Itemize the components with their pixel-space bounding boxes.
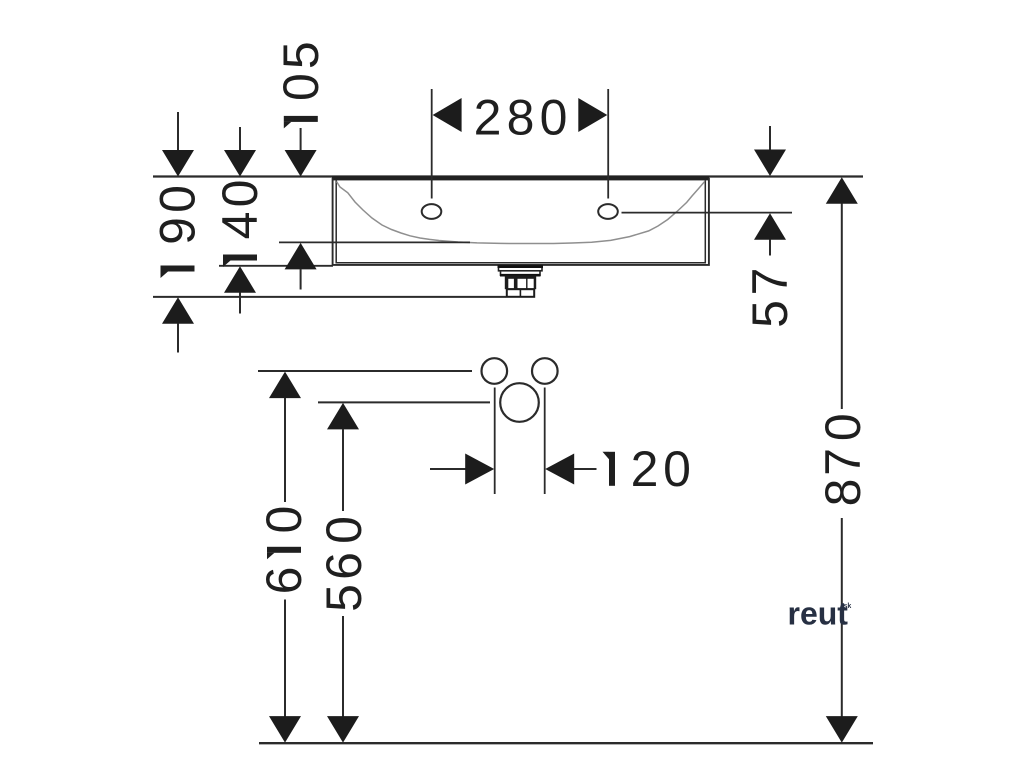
dim 120 left arrow xyxy=(465,454,494,485)
faucet hole small right xyxy=(532,358,558,384)
dim 57 bottom arrow xyxy=(754,213,786,240)
dim 190 bottom stem xyxy=(177,324,179,353)
svg-text:2: 2 xyxy=(631,441,659,497)
280 right extension line xyxy=(607,89,609,199)
dim 870 top arrow xyxy=(826,177,858,204)
dim 105 bottom arrow xyxy=(285,243,317,270)
dim 190 bottom arrow xyxy=(162,297,194,324)
dim 190 top arrow xyxy=(162,150,194,177)
dim 57 bottom stem xyxy=(769,240,771,256)
svg-text:9: 9 xyxy=(150,217,206,245)
57 reference line xyxy=(622,212,793,214)
svg-text:5: 5 xyxy=(742,300,798,328)
svg-text:0: 0 xyxy=(212,180,268,208)
svg-text:sk: sk xyxy=(844,603,852,610)
svg-text:6: 6 xyxy=(256,567,312,595)
dim 120 left stem xyxy=(430,468,466,470)
label 190 xyxy=(161,266,195,272)
dim 280 left arrow xyxy=(433,98,462,132)
washbasin inner body xyxy=(336,180,705,262)
drain collar xyxy=(501,271,541,275)
svg-text:7: 7 xyxy=(815,448,871,476)
svg-text:reut: reut xyxy=(788,596,849,632)
left overflow hole xyxy=(422,204,442,219)
svg-text:2: 2 xyxy=(474,90,502,146)
washbasin top edge xyxy=(332,176,709,181)
svg-text:0: 0 xyxy=(815,413,871,441)
drain knurled nut xyxy=(505,275,536,289)
svg-text:4: 4 xyxy=(212,212,268,240)
dim 140 bottom stem xyxy=(239,293,241,314)
dim 610 top arrow xyxy=(269,372,301,399)
dim 120 right stem xyxy=(574,468,597,470)
dim 140 bottom arrow xyxy=(224,266,256,293)
label 120 xyxy=(609,452,615,486)
faucet hole small left xyxy=(482,358,508,384)
dim 560 upper stem xyxy=(342,429,344,511)
dim 57 top stem xyxy=(769,126,771,151)
drain tailpiece xyxy=(507,289,534,297)
svg-text:0: 0 xyxy=(273,73,329,101)
280 left extension line xyxy=(431,89,433,199)
dim 57 top arrow xyxy=(754,150,786,177)
dim 105 top stem xyxy=(300,128,302,151)
dim 140 top arrow xyxy=(224,150,256,177)
105 reference line xyxy=(279,241,470,243)
svg-text:7: 7 xyxy=(742,268,798,296)
dim 870 bottom arrow xyxy=(826,716,858,743)
svg-text:0: 0 xyxy=(663,441,691,497)
washbasin outer body xyxy=(333,178,709,265)
dim 870 lower stem xyxy=(841,518,843,717)
dim 560 top arrow xyxy=(327,403,359,430)
dim 120 right arrow xyxy=(545,454,574,485)
610 reference line xyxy=(258,370,472,372)
560 reference line xyxy=(318,401,490,403)
dim 610 bottom arrow xyxy=(269,716,301,743)
svg-text:0: 0 xyxy=(540,90,568,146)
dim 280 right arrow xyxy=(578,98,607,132)
svg-text:5: 5 xyxy=(273,41,329,69)
svg-text:0: 0 xyxy=(256,506,312,534)
svg-text:8: 8 xyxy=(507,90,535,146)
label 140 xyxy=(223,255,257,261)
svg-text:8: 8 xyxy=(815,479,871,507)
dim 560 bottom arrow xyxy=(327,716,359,743)
svg-text:6: 6 xyxy=(316,552,372,580)
svg-text:5: 5 xyxy=(316,584,372,612)
dim 870 upper stem xyxy=(841,204,843,410)
wall line xyxy=(153,175,863,177)
dim 190 top stem xyxy=(177,112,179,151)
dim 140 top stem xyxy=(239,127,241,151)
svg-text:0: 0 xyxy=(150,185,206,213)
faucet hole large xyxy=(500,383,539,422)
120 left extension line xyxy=(494,388,496,495)
svg-text:0: 0 xyxy=(316,516,372,544)
basin interior curve xyxy=(337,181,705,243)
dim 610 lower stem xyxy=(284,600,286,718)
dim 105 bottom stem xyxy=(300,269,302,289)
dim 105 top arrow xyxy=(285,150,317,177)
190 reference line xyxy=(153,296,506,298)
label 105 xyxy=(284,116,318,122)
dim 560 lower stem xyxy=(342,616,344,717)
right overflow hole xyxy=(598,204,618,219)
drain flange xyxy=(499,266,543,271)
floor line xyxy=(259,742,873,744)
140 reference line xyxy=(219,265,333,267)
dim 610 upper stem xyxy=(284,398,286,502)
120 right extension line xyxy=(544,388,546,495)
